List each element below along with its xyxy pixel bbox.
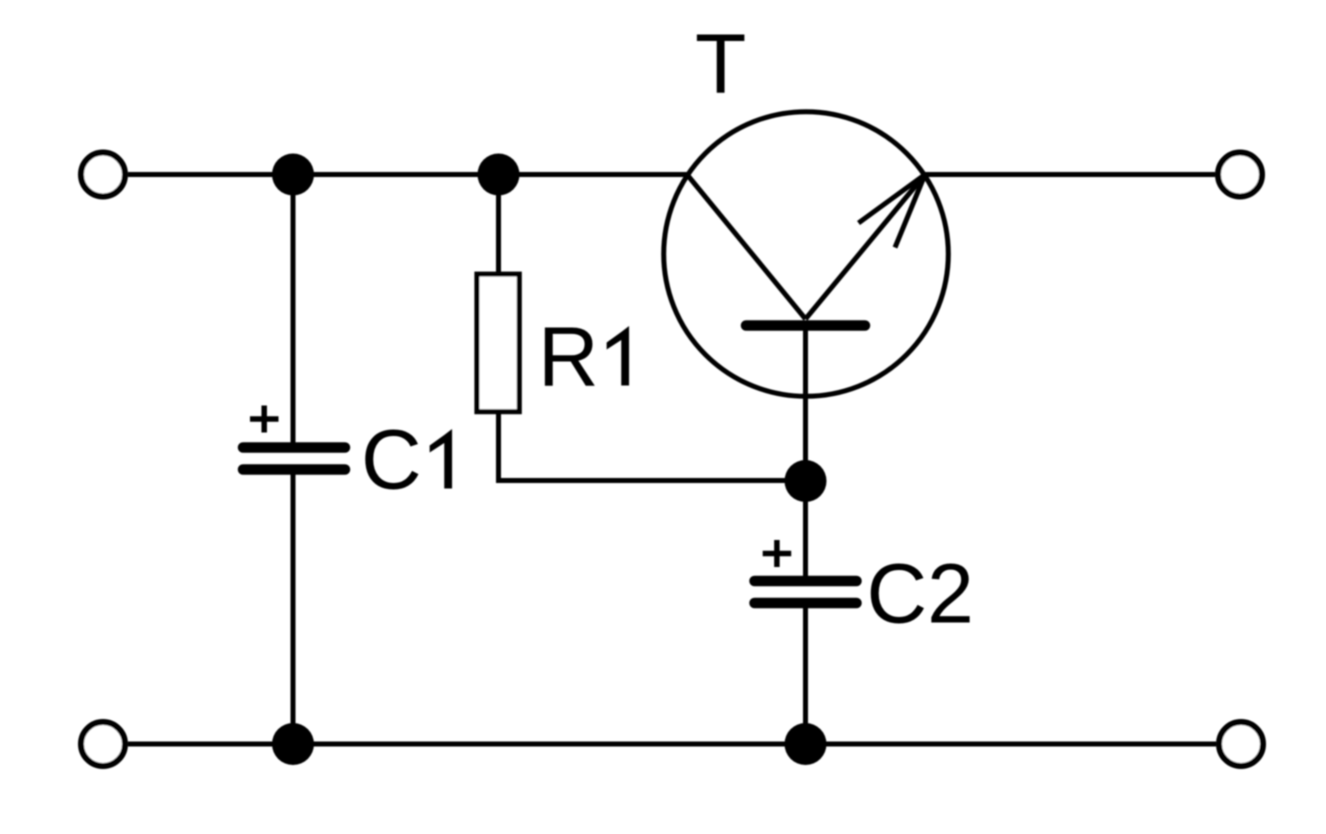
wire: R1 bottom to base node (horizontal) (496, 478, 806, 483)
wire: C1 bottom plate down to bottom rail (291, 470, 296, 745)
wire: top rail junction down to C1 top plate (291, 175, 296, 448)
transistor T body circle (664, 112, 949, 397)
wire: top rail, right segment (transistor emitter to right terminal) (924, 172, 1215, 177)
svg-text:T: T (695, 17, 746, 111)
capacitor C1 bottom plate (243, 464, 345, 475)
label C1 (361, 413, 452, 507)
capacitor C2 bottom plate (755, 598, 857, 609)
capacitor C1 plus polarity mark (250, 406, 279, 433)
wire: top rail junction down to resistor R1 (496, 175, 501, 275)
label R1 (538, 310, 629, 404)
svg-text:C: C (361, 413, 422, 507)
wire: transistor base down to node (803, 326, 808, 482)
terminal (bottom-left, open circle) (81, 722, 125, 766)
junction: C2 / bottom rail (785, 723, 827, 765)
junction: R1 / top rail (478, 154, 520, 196)
wire: bottom rail (128, 742, 1216, 747)
svg-text:R: R (538, 310, 599, 404)
junction: base node (R1 / C2) (785, 460, 827, 502)
junction: C1 / top rail (272, 154, 314, 196)
transistor T collector lead (left diagonal) (687, 175, 806, 320)
resistor R1 body (477, 274, 519, 412)
terminal (bottom-right, open circle) (1219, 722, 1263, 766)
terminal (top-left, open circle) (81, 153, 125, 197)
transistor T emitter lead (right diagonal with arrow) (806, 175, 926, 320)
wire: resistor R1 bottom lead down (496, 412, 501, 483)
terminal (top-right, open circle) (1218, 153, 1262, 197)
wire: top rail, left segment (terminal to transistor collector) (128, 172, 687, 177)
transistor T emitter arrowhead (859, 175, 926, 248)
capacitor C1 top plate (243, 442, 345, 453)
capacitor C2 plus polarity mark (763, 540, 792, 567)
capacitor C2 top plate (755, 576, 857, 587)
transistor T base bar (746, 320, 865, 331)
wire: C2 bottom plate down to bottom rail (803, 603, 808, 744)
junction: C1 / bottom rail (272, 723, 314, 765)
wire: base node down to C2 top plate (803, 481, 808, 581)
svg-text:C2: C2 (867, 547, 974, 641)
